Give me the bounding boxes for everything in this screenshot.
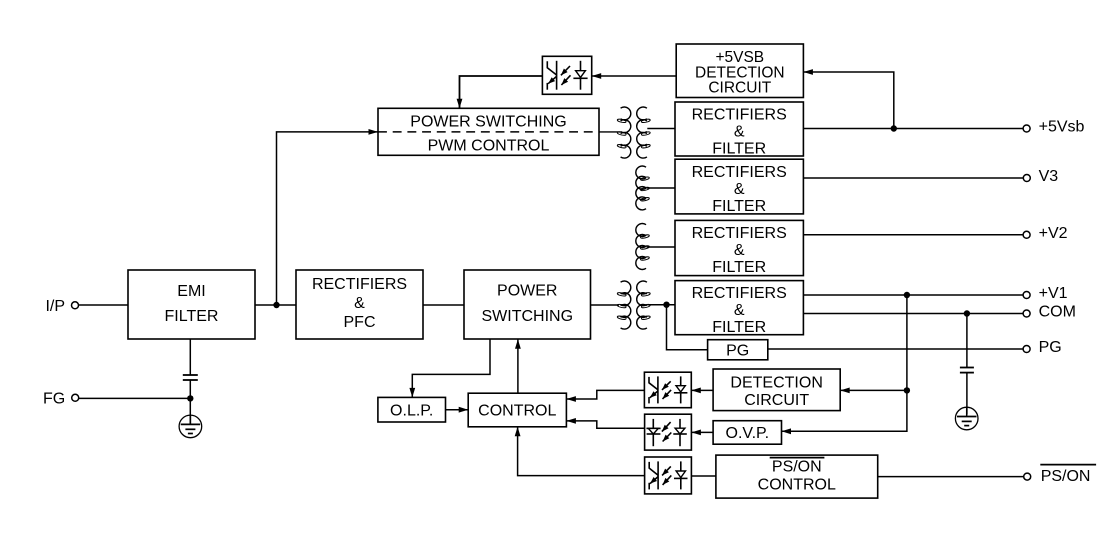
terminal I/P xyxy=(45,298,78,315)
svg-text:CONTROL: CONTROL xyxy=(758,477,836,494)
block RECTIFIERS & FILTER R3 xyxy=(675,220,803,276)
wire node A branch up to PWM CONTROL input xyxy=(277,132,379,305)
arrowhead into PWM CONTROL top xyxy=(457,99,463,109)
svg-text:PWM CONTROL: PWM CONTROL xyxy=(428,137,550,154)
wire +V1 node down to O.V.P. xyxy=(782,295,907,431)
wire COM node down to capacitor C2 xyxy=(966,314,968,368)
svg-text:O.L.P.: O.L.P. xyxy=(390,402,433,419)
transformer T2 primary winding xyxy=(617,281,631,329)
wire PS/ON output xyxy=(878,476,1024,478)
svg-text:+V1: +V1 xyxy=(1039,285,1068,302)
wire PS/ON CONTROL to opto U4 xyxy=(691,475,716,477)
wire EMI FILTER to RECTIFIERS & PFC xyxy=(255,304,296,306)
wire POWER SWITCHING to O.L.P. xyxy=(412,339,490,397)
wire node B down to PG block xyxy=(667,305,708,350)
block PS/ON CONTROL xyxy=(716,455,878,498)
svg-text:CIRCUIT: CIRCUIT xyxy=(708,79,771,96)
svg-text:+V2: +V2 xyxy=(1039,225,1068,242)
wire L1 secondary to rectifier R2 xyxy=(647,187,676,189)
svg-text:+5Vsb: +5Vsb xyxy=(1039,119,1085,136)
arrowhead into CONTROL bottom xyxy=(515,427,521,437)
block O.V.P. xyxy=(713,421,781,445)
svg-text:POWER SWITCHING: POWER SWITCHING xyxy=(410,113,566,130)
optocoupler U3 xyxy=(645,414,692,450)
wire O.V.P. to opto U3 xyxy=(691,431,713,433)
block RECTIFIERS & PFC xyxy=(296,270,423,339)
wire POWER SWITCHING to transformer T2 primary xyxy=(591,304,620,306)
wire T2 secondary to rectifier R4 xyxy=(647,304,675,306)
junction node B xyxy=(663,302,669,308)
svg-text:CONTROL: CONTROL xyxy=(478,403,556,420)
wire PG output xyxy=(768,348,1023,350)
svg-text:PS/ON: PS/ON xyxy=(772,459,822,476)
junction on +5Vsb line xyxy=(891,125,897,131)
svg-text:&: & xyxy=(734,242,745,259)
optocoupler U2 xyxy=(644,372,691,408)
block O.L.P. xyxy=(378,397,446,422)
terminal V3 xyxy=(1023,168,1058,185)
wire T1 secondary to rectifier R1 xyxy=(647,128,675,130)
wire opto U4 to CONTROL bottom xyxy=(518,427,645,476)
svg-text:PFC: PFC xyxy=(344,314,376,331)
svg-text:RECTIFIERS: RECTIFIERS xyxy=(692,164,787,181)
svg-text:FILTER: FILTER xyxy=(712,140,766,157)
block PG xyxy=(708,340,768,360)
svg-text:I/P: I/P xyxy=(45,298,65,315)
wire +5Vsb output xyxy=(803,128,1023,130)
svg-text:COM: COM xyxy=(1039,304,1076,321)
arrowhead into O.L.P. top xyxy=(409,388,415,398)
svg-text:V3: V3 xyxy=(1039,168,1059,185)
wire CONTROL to POWER SWITCHING xyxy=(517,339,519,393)
arrowhead into +5VSB detection circuit right xyxy=(803,69,813,75)
block RECTIFIERS & FILTER R4 xyxy=(675,281,803,337)
svg-text:FILTER: FILTER xyxy=(165,308,219,325)
wire capacitor C1 to earth ground xyxy=(189,380,191,424)
svg-text:SWITCHING: SWITCHING xyxy=(481,308,573,325)
arrowhead into opto U3 right xyxy=(691,430,701,436)
block POWER SWITCHING PWM CONTROL xyxy=(378,108,599,155)
svg-text:PG: PG xyxy=(1039,339,1062,356)
secondary winding L2 (+V2) xyxy=(636,223,650,269)
wire capacitor C2 to earth ground xyxy=(966,373,968,415)
wire +5VSB detection circuit to opto U1 xyxy=(592,75,677,77)
svg-text:RECTIFIERS: RECTIFIERS xyxy=(692,106,787,123)
svg-text:DETECTION: DETECTION xyxy=(730,375,822,392)
svg-text:FILTER: FILTER xyxy=(712,259,766,276)
svg-text:EMI: EMI xyxy=(177,283,205,300)
arrowhead into O.V.P. right xyxy=(782,428,792,434)
svg-text:CIRCUIT: CIRCUIT xyxy=(744,392,809,409)
terminal +5Vsb xyxy=(1023,119,1084,136)
svg-text:&: & xyxy=(734,123,745,140)
wire +V1 output xyxy=(803,294,1023,296)
arrowhead into CONTROL right lower xyxy=(566,418,576,424)
wire +5Vsb node up to +5VSB detection circuit xyxy=(803,72,893,129)
junction on COM line xyxy=(964,310,970,316)
block DETECTION CIRCUIT xyxy=(713,369,840,411)
block CONTROL xyxy=(468,393,566,427)
svg-text:RECTIFIERS: RECTIFIERS xyxy=(692,225,787,242)
arrowhead into opto U1 right xyxy=(592,73,602,79)
junction node A xyxy=(273,302,279,308)
wire I/P to EMI FILTER xyxy=(79,304,129,306)
terminal +V1 xyxy=(1023,285,1068,302)
block EMI FILTER xyxy=(128,270,255,339)
transformer T2 secondary winding xyxy=(637,281,651,329)
secondary winding L1 (V3) xyxy=(636,166,650,210)
block RECTIFIERS & FILTER R2 xyxy=(675,159,803,215)
svg-text:FILTER: FILTER xyxy=(712,198,766,215)
arrowhead into CONTROL right upper xyxy=(566,396,576,402)
junction on +V1 sense line xyxy=(904,387,910,393)
terminal PS/ON xyxy=(1024,465,1096,485)
wire branch to detection circuit xyxy=(840,389,907,391)
optocoupler U1 xyxy=(542,56,591,94)
terminal PG xyxy=(1023,339,1062,356)
terminal +V2 xyxy=(1023,225,1068,242)
wire opto U1 to PWM CONTROL top xyxy=(460,76,543,108)
wire COM output xyxy=(803,313,1023,315)
optocoupler U4 xyxy=(645,457,692,494)
arrowhead into CONTROL left xyxy=(459,407,469,413)
block +5VSB DETECTION CIRCUIT xyxy=(676,44,803,98)
wire FG to ground node xyxy=(79,397,191,399)
junction on +V1 line xyxy=(904,292,910,298)
arrowhead into opto U2 right xyxy=(691,388,701,394)
wire RECTIFIERS & PFC to POWER SWITCHING xyxy=(423,304,464,306)
block RECTIFIERS & FILTER R1 xyxy=(675,102,803,157)
svg-text:RECTIFIERS: RECTIFIERS xyxy=(312,276,407,293)
earth ground G1 xyxy=(179,415,202,438)
wire PWM CONTROL to T1 primary xyxy=(599,131,621,133)
svg-text:RECTIFIERS: RECTIFIERS xyxy=(692,285,787,302)
svg-text:FILTER: FILTER xyxy=(712,319,766,336)
capacitor C1 xyxy=(183,375,198,380)
svg-text:&: & xyxy=(734,181,745,198)
arrowhead into PWM CONTROL left xyxy=(369,129,379,135)
wire V3 output xyxy=(803,177,1023,179)
wire L2 secondary to rectifier R3 xyxy=(647,246,676,248)
earth ground G2 xyxy=(955,407,978,430)
junction FG node xyxy=(187,395,193,401)
svg-text:&: & xyxy=(354,295,365,312)
block POWER SWITCHING xyxy=(464,270,591,339)
wire DETECTION CIRCUIT to opto U2 xyxy=(691,389,713,391)
svg-text:O.V.P.: O.V.P. xyxy=(726,425,770,442)
wire EMI FILTER bottom to capacitor C1 xyxy=(189,339,191,375)
svg-text:PS/ON: PS/ON xyxy=(1041,468,1091,485)
svg-text:FG: FG xyxy=(43,390,65,407)
transformer T1 primary winding xyxy=(617,107,631,158)
wire O.L.P. to CONTROL xyxy=(446,409,469,411)
svg-text:PG: PG xyxy=(726,342,749,359)
svg-text:POWER: POWER xyxy=(497,282,557,299)
arrowhead into DETECTION CIRCUIT right xyxy=(840,388,850,394)
svg-text:&: & xyxy=(734,302,745,319)
terminal FG xyxy=(43,390,79,407)
wire +V2 output xyxy=(803,234,1023,236)
terminal COM xyxy=(1023,304,1076,321)
transformer T1 secondary winding xyxy=(637,107,651,158)
capacitor C2 xyxy=(960,368,974,373)
wire opto U3 to CONTROL xyxy=(566,421,644,428)
wire opto U2 to CONTROL xyxy=(566,390,644,399)
arrowhead into POWER SWITCHING bottom xyxy=(515,339,521,349)
